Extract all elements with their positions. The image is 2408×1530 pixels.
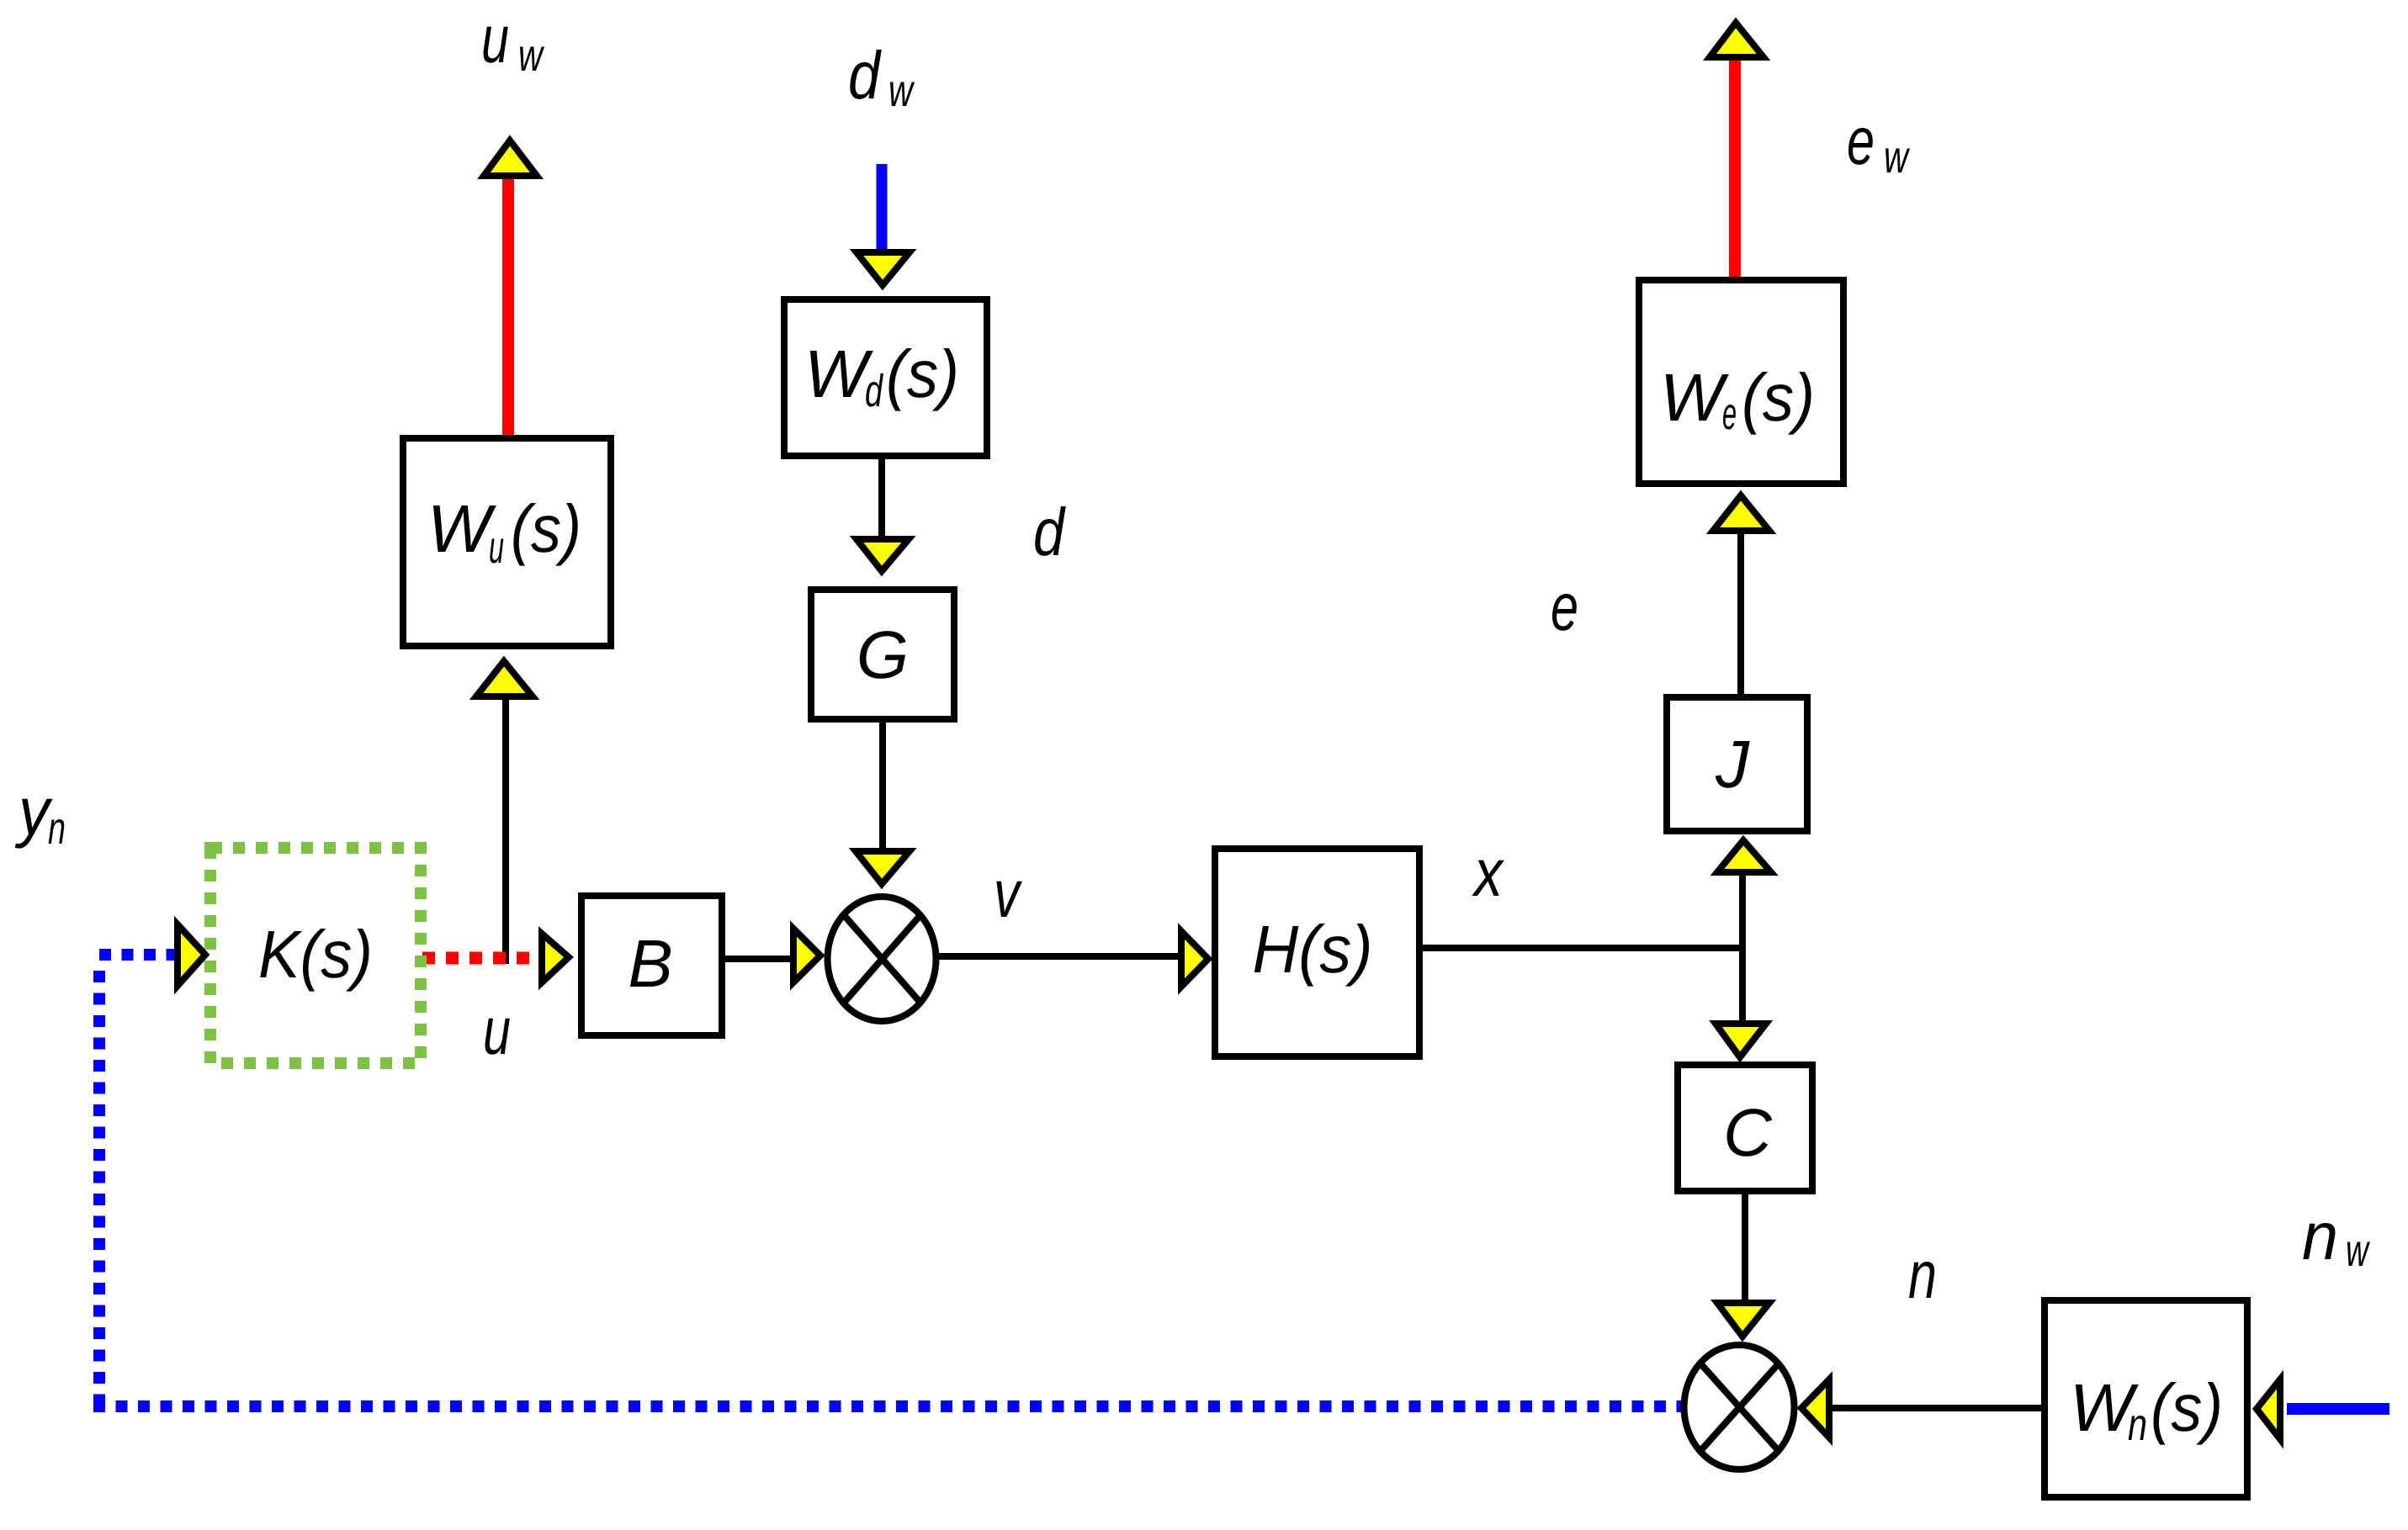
svg-text:e: e	[1722, 389, 1737, 439]
svg-text:u: u	[483, 993, 511, 1068]
svg-text:W: W	[427, 491, 496, 566]
svg-text:n: n	[48, 803, 66, 854]
svg-text:d: d	[865, 366, 883, 416]
svg-text:d: d	[1033, 495, 1066, 569]
svg-text:C: C	[1723, 1095, 1773, 1170]
svg-text:d: d	[848, 38, 882, 113]
svg-text:x: x	[1472, 835, 1505, 910]
svg-text:(s): (s)	[2151, 1370, 2223, 1445]
svg-text:w: w	[518, 30, 544, 81]
svg-text:u: u	[481, 2, 509, 77]
svg-text:w: w	[888, 66, 915, 116]
svg-text:n: n	[2128, 1400, 2147, 1450]
svg-text:(s): (s)	[886, 336, 959, 411]
svg-text:v: v	[994, 856, 1022, 931]
svg-text:J: J	[1715, 727, 1750, 802]
svg-text:n: n	[1908, 1237, 1937, 1312]
svg-text:e: e	[1847, 103, 1875, 178]
svg-text:(s): (s)	[1742, 360, 1815, 435]
svg-text:w: w	[2346, 1226, 2370, 1276]
svg-text:n: n	[2302, 1199, 2338, 1273]
svg-text:B: B	[628, 926, 672, 1001]
svg-text:u: u	[489, 522, 504, 573]
svg-text:W: W	[804, 336, 873, 411]
svg-text:K(s): K(s)	[258, 917, 373, 992]
svg-text:H(s): H(s)	[1253, 912, 1373, 987]
svg-text:e: e	[1551, 569, 1578, 644]
svg-text:w: w	[1884, 132, 1910, 183]
svg-text:(s): (s)	[511, 491, 581, 566]
svg-text:G: G	[857, 617, 909, 692]
svg-text:W: W	[1660, 360, 1729, 435]
